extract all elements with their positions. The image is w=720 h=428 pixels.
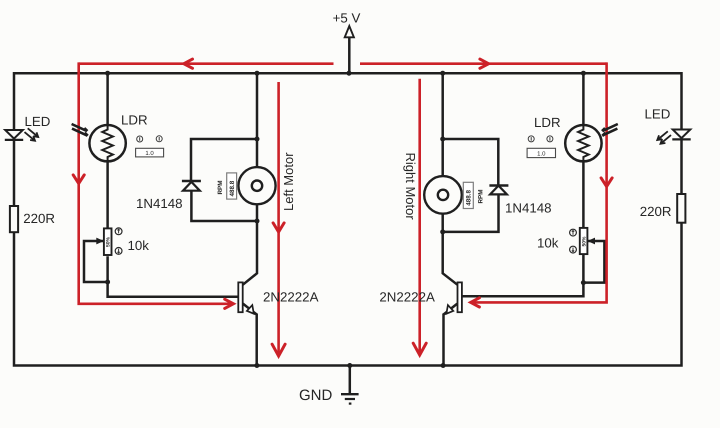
svg-text:LDR: LDR (121, 112, 148, 127)
svg-text:220R: 220R (640, 204, 672, 219)
svg-text:Left Motor: Left Motor (281, 152, 296, 211)
svg-text:488.8: 488.8 (229, 180, 236, 196)
svg-text:1N4148: 1N4148 (505, 200, 552, 215)
svg-text:50%: 50% (582, 236, 588, 247)
svg-text:10k: 10k (128, 238, 150, 253)
svg-text:Right Motor: Right Motor (403, 153, 418, 221)
svg-text:GND: GND (299, 387, 333, 404)
svg-text:2N2222A: 2N2222A (379, 289, 435, 304)
svg-text:488.8: 488.8 (466, 190, 473, 206)
svg-text:LED: LED (645, 107, 671, 122)
svg-text:2N2222A: 2N2222A (263, 289, 319, 304)
svg-text:LED: LED (25, 114, 51, 129)
svg-text:50%: 50% (106, 236, 112, 247)
svg-text:LDR: LDR (534, 115, 561, 130)
svg-text:10k: 10k (537, 235, 559, 250)
svg-text:RPM: RPM (478, 190, 485, 204)
svg-text:1N4148: 1N4148 (136, 196, 183, 211)
svg-text:RPM: RPM (217, 181, 224, 195)
svg-text:1.0: 1.0 (145, 150, 154, 157)
svg-text:1.0: 1.0 (537, 150, 546, 157)
svg-text:220R: 220R (23, 211, 55, 226)
svg-text:+5 V: +5 V (333, 10, 361, 25)
